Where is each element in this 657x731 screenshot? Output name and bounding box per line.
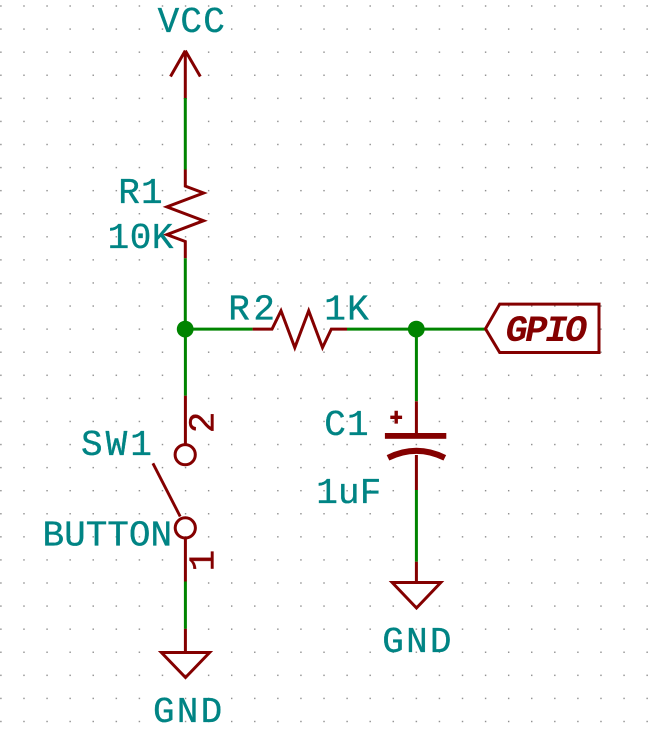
svg-text:VCC: VCC — [158, 2, 226, 43]
svg-text:2: 2 — [183, 412, 224, 434]
svg-text:10K: 10K — [108, 218, 174, 259]
svg-text:R1: R1 — [118, 173, 164, 214]
svg-text:BUTTON: BUTTON — [43, 516, 173, 557]
svg-text:C1: C1 — [324, 405, 370, 446]
svg-text:GND: GND — [153, 692, 224, 731]
wire VCC to R1 — [184, 98, 187, 170]
global label GPIO — [486, 304, 600, 353]
svg-text:GPIO: GPIO — [506, 311, 587, 353]
resistor R1 — [167, 170, 204, 259]
switch SW1 — [153, 396, 196, 582]
wire R2 to GPIO — [347, 328, 486, 331]
node A junction — [177, 321, 194, 338]
capacitor C1 — [385, 401, 446, 490]
ground left — [161, 629, 209, 678]
wire C1 to GND — [415, 490, 418, 562]
node B junction — [408, 321, 425, 338]
svg-text:SW1: SW1 — [81, 425, 155, 466]
svg-text:1uF: 1uF — [316, 473, 381, 514]
wire SW1 to GND — [184, 582, 187, 629]
wire node A to R2 — [185, 328, 252, 331]
wire node A to SW1 — [184, 329, 187, 396]
wire node B to C1 — [415, 329, 418, 401]
resistor R2 — [253, 311, 347, 348]
wire R1 to node A — [184, 258, 187, 330]
power flag VCC — [171, 51, 201, 99]
svg-text:GND: GND — [382, 622, 453, 663]
svg-text:1K: 1K — [324, 289, 370, 330]
ground right — [392, 562, 441, 608]
svg-text:R2: R2 — [228, 289, 278, 330]
svg-text:1: 1 — [184, 550, 225, 572]
